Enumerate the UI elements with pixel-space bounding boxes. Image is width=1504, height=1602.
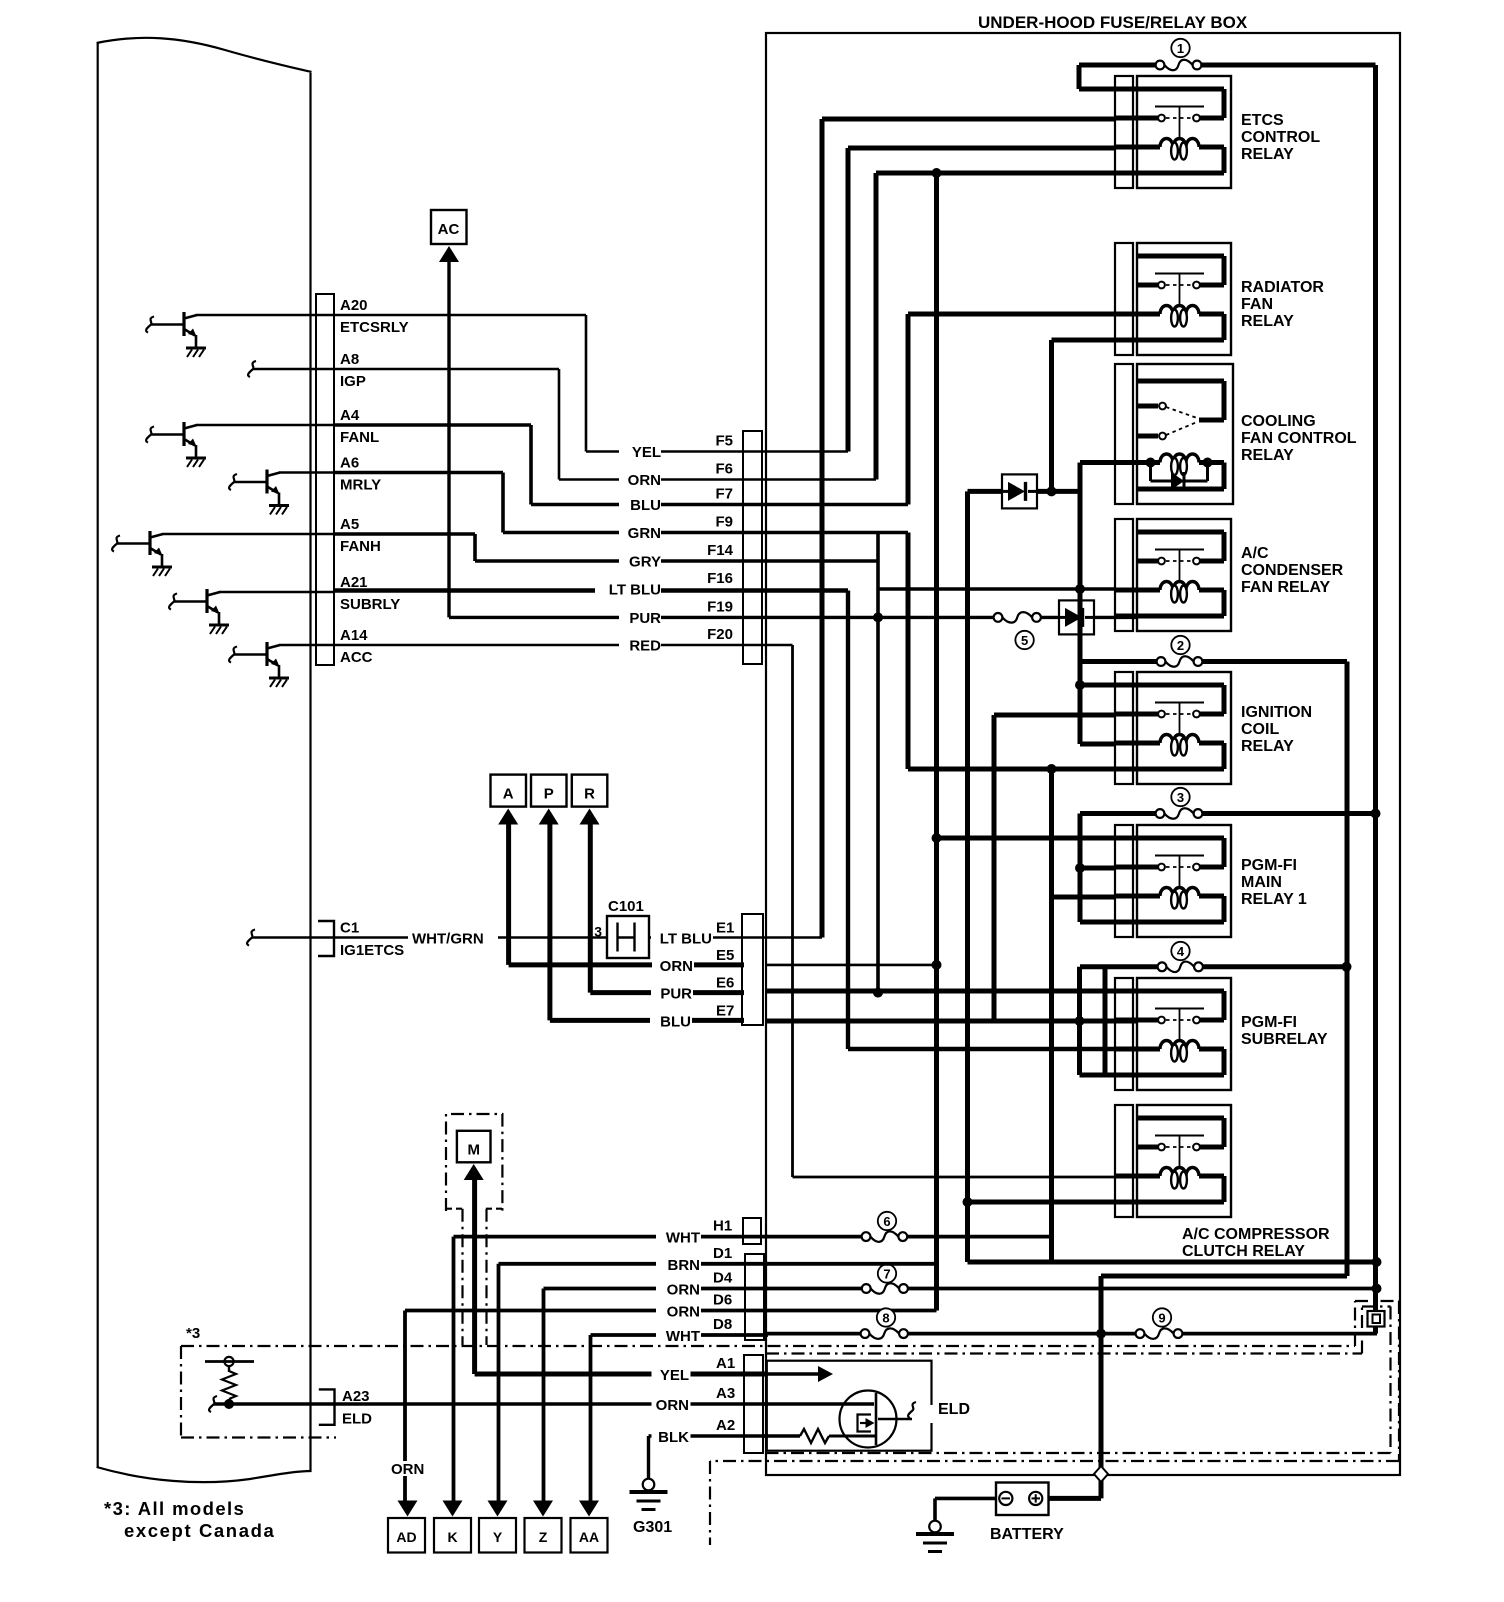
svg-text:RELAY: RELAY bbox=[1241, 447, 1294, 464]
svg-text:7: 7 bbox=[883, 1266, 890, 1281]
svg-text:MRLY: MRLY bbox=[340, 477, 381, 494]
box Z bbox=[525, 1518, 562, 1553]
svg-text:F9: F9 bbox=[715, 514, 733, 531]
ELD box bbox=[767, 1361, 932, 1451]
svg-text:AD: AD bbox=[396, 1529, 416, 1545]
junction dot clutch bottom / v8 bbox=[963, 1197, 973, 1207]
ECM band wavy bottom edge bbox=[97, 1467, 312, 1482]
wire ignition coil from v9 corner bbox=[1080, 742, 1115, 747]
svg-text:3: 3 bbox=[594, 924, 602, 940]
svg-text:F6: F6 bbox=[715, 461, 733, 478]
wire A5 pin row bbox=[162, 533, 334, 536]
svg-text:IGP: IGP bbox=[340, 373, 366, 390]
svg-text:MAIN: MAIN bbox=[1241, 874, 1282, 891]
wire v10: F20/RED down to clutch coil bbox=[791, 645, 794, 1177]
box AA bbox=[571, 1518, 608, 1553]
diamond pass-through on box bottom bbox=[1094, 1466, 1108, 1482]
svg-text:A23: A23 bbox=[342, 1388, 370, 1405]
svg-text:A4: A4 bbox=[340, 407, 360, 424]
svg-text:BLU: BLU bbox=[660, 1013, 691, 1030]
ECM connector bracket A-pins bbox=[316, 294, 334, 665]
fuse 1 bbox=[1171, 39, 1189, 57]
wire D8 (WHT) row to AA box dropper bbox=[591, 1333, 769, 1337]
svg-text:D4: D4 bbox=[713, 1270, 733, 1287]
wire main relay coil row from v6c bbox=[1052, 895, 1116, 900]
svg-text:*3: *3 bbox=[186, 1325, 200, 1342]
junction dot ignition bottom / v6c bbox=[1047, 764, 1057, 774]
label pads bbox=[619, 444, 661, 460]
svg-text:PGM-FI: PGM-FI bbox=[1241, 1014, 1297, 1031]
svg-text:D1: D1 bbox=[713, 1245, 732, 1262]
ground G301 bbox=[643, 1479, 655, 1491]
svg-text:YEL: YEL bbox=[660, 1367, 689, 1384]
*3 resistor (vertical) bbox=[228, 1362, 230, 1372]
diode D2 (fuse5 to condenser relay) bbox=[1094, 616, 1137, 619]
wire A6 to F9 (GRN) jog bbox=[334, 471, 503, 475]
svg-text:Z: Z bbox=[539, 1529, 548, 1545]
svg-text:SUBRELAY: SUBRELAY bbox=[1241, 1031, 1328, 1048]
svg-text:CONDENSER: CONDENSER bbox=[1241, 562, 1344, 579]
wire D4 (ORN) row to Z box dropper bbox=[544, 1287, 769, 1291]
connector C101 (joint) bbox=[607, 916, 649, 958]
relay COOLING FAN CONTROL RELAY bbox=[1115, 364, 1133, 504]
svg-text:E7: E7 bbox=[716, 1002, 734, 1019]
svg-text:F20: F20 bbox=[707, 626, 733, 643]
svg-text:A5: A5 bbox=[340, 516, 359, 533]
wire A2 (BLK) row bbox=[649, 1434, 767, 1437]
svg-text:E6: E6 bbox=[716, 975, 734, 992]
relay A/C COMPRESSOR CLUTCH RELAY bbox=[1115, 1105, 1133, 1217]
svg-text:BATTERY: BATTERY bbox=[990, 1526, 1064, 1543]
arrow into AC box bbox=[439, 246, 459, 262]
svg-text:RELAY 1: RELAY 1 bbox=[1241, 891, 1307, 908]
svg-text:RELAY: RELAY bbox=[1241, 738, 1294, 755]
fuse 3 bbox=[1171, 788, 1189, 806]
wire BLK down to G301 bbox=[647, 1436, 650, 1479]
junction dot E5 row / v4 bbox=[932, 960, 942, 970]
svg-text:FANH: FANH bbox=[340, 538, 381, 555]
wire P box to E7 (BLU) bbox=[547, 823, 552, 1020]
svg-text:FAN: FAN bbox=[1241, 296, 1273, 313]
wire battery riser bbox=[1099, 1276, 1104, 1498]
wire A20 to F5 (YEL) jog bbox=[334, 314, 586, 317]
svg-text:ELD: ELD bbox=[342, 1411, 372, 1428]
wire A box to E5 (ORN) bbox=[506, 823, 511, 965]
wire fuse1 to ETCS top bbox=[1077, 65, 1082, 89]
wire v_g: GRN/GRY net down to E6 bbox=[876, 533, 880, 993]
svg-text:PGM-FI: PGM-FI bbox=[1241, 857, 1297, 874]
wire M to A1 (YEL) bbox=[472, 1176, 477, 1374]
fuse 7 bbox=[878, 1264, 896, 1282]
wire E6 row to subrelay top bbox=[766, 989, 1137, 994]
svg-text:H1: H1 bbox=[713, 1218, 732, 1235]
wire v1: E1 net up to ETCS contact bbox=[820, 119, 825, 938]
ECM band wavy top edge bbox=[97, 38, 312, 72]
junction dot E7 / v9c bbox=[1075, 1016, 1085, 1026]
wire v12: ignition contact feed bbox=[994, 713, 1115, 718]
svg-text:D6: D6 bbox=[713, 1292, 732, 1309]
svg-text:C101: C101 bbox=[608, 898, 644, 915]
wire v13: fuse4 row down to subrelay bottom bbox=[1103, 967, 1108, 1075]
svg-text:ORN: ORN bbox=[660, 958, 693, 975]
M device dash-dot enclosure bbox=[446, 1114, 502, 1211]
svg-text:6: 6 bbox=[883, 1214, 890, 1229]
ECM band left edge bbox=[97, 43, 99, 1468]
connector bracket F (under-hood box) bbox=[743, 431, 762, 664]
wire A6 pin row bbox=[279, 471, 334, 474]
svg-text:FAN CONTROL: FAN CONTROL bbox=[1241, 430, 1357, 447]
wire A5 to F14 (GRY) jog bbox=[334, 532, 475, 536]
svg-text:AC: AC bbox=[438, 221, 460, 238]
fuse 8 bbox=[877, 1308, 895, 1326]
connector bracket H1 bbox=[743, 1218, 761, 1244]
ground (battery) bbox=[929, 1521, 941, 1533]
svg-text:A14: A14 bbox=[340, 627, 368, 644]
dash-dot rail inner bbox=[766, 1352, 1362, 1354]
fuse 4 bbox=[1171, 942, 1189, 960]
fuse 6 bbox=[878, 1212, 896, 1230]
svg-text:F14: F14 bbox=[707, 542, 734, 559]
relay PGM-FI SUBRELAY bbox=[1115, 978, 1133, 1090]
wire v5b: GRN row down to ignition bottom bbox=[906, 533, 911, 770]
svg-text:G301: G301 bbox=[633, 1519, 672, 1536]
connector bracket E bbox=[742, 914, 763, 1025]
box R bbox=[572, 775, 608, 807]
svg-text:E1: E1 bbox=[716, 920, 734, 937]
wire fuse2 corner into v9, dot to ignition top bbox=[1078, 662, 1083, 745]
junction dot feedB / fuse4 row bbox=[1342, 962, 1352, 972]
svg-text:WHT: WHT bbox=[666, 1328, 700, 1345]
fuse 5 bbox=[1015, 631, 1033, 649]
svg-text:A1: A1 bbox=[716, 1355, 735, 1372]
relay RADIATOR FAN RELAY bbox=[1115, 243, 1133, 355]
wire D6 (ORN) row to AD box dropper bbox=[405, 1309, 937, 1313]
transistor Q3 (A6 MRLY driver) bbox=[265, 470, 268, 494]
wire battery negative to ground bbox=[935, 1497, 996, 1501]
junction dot ETCS bottom / ORN net bbox=[932, 168, 942, 178]
wire D1 row right to v4 bbox=[766, 1262, 937, 1266]
svg-text:RELAY: RELAY bbox=[1241, 146, 1294, 163]
svg-text:R: R bbox=[584, 786, 595, 803]
box P bbox=[531, 775, 567, 807]
wire fuse3 down v9b to main relay bbox=[1078, 814, 1083, 923]
svg-text:A/C: A/C bbox=[1241, 545, 1269, 562]
junction dot v9b main contact bbox=[1075, 863, 1085, 873]
terminal box on feedA bbox=[1368, 1311, 1385, 1327]
svg-text:PUR: PUR bbox=[629, 610, 661, 627]
junction dot v_g E6 row bbox=[873, 988, 883, 998]
relay IGNITION COIL RELAY bbox=[1115, 672, 1133, 784]
ELD gate symbol bbox=[858, 1415, 872, 1432]
wire AC box to F19 (PUR) bbox=[447, 258, 450, 617]
wire radiator bottom to v6 bbox=[1052, 338, 1116, 343]
diode box fuse5 bbox=[1059, 600, 1094, 634]
junction dot v9/GRN condenser row bbox=[1075, 584, 1085, 594]
relay A/C CONDENSER FAN RELAY bbox=[1115, 519, 1133, 631]
svg-text:WHT/GRN: WHT/GRN bbox=[412, 931, 484, 948]
transistor Q4 (A5 FANH driver) bbox=[148, 531, 151, 555]
M box bbox=[457, 1131, 491, 1163]
svg-text:ETCS: ETCS bbox=[1241, 112, 1284, 129]
svg-text:BLU: BLU bbox=[630, 497, 661, 514]
svg-text:ORN: ORN bbox=[656, 1397, 689, 1414]
junction dot v6 / diode row bbox=[1047, 486, 1057, 496]
wire R box to E6 (PUR) bbox=[588, 823, 593, 993]
svg-text:5: 5 bbox=[1021, 633, 1028, 648]
wire main relay top row from v4 bbox=[932, 833, 942, 843]
svg-text:A6: A6 bbox=[340, 455, 359, 472]
svg-text:K: K bbox=[447, 1529, 457, 1545]
arrow into M box bbox=[464, 1164, 484, 1180]
wire A14 pin row bbox=[279, 644, 334, 647]
svg-text:ORN: ORN bbox=[628, 472, 661, 489]
svg-text:UNDER-HOOD FUSE/RELAY BOX: UNDER-HOOD FUSE/RELAY BOX bbox=[978, 13, 1248, 32]
transistor Q6 (A14 ACC driver) bbox=[265, 642, 268, 666]
wire A8 row with cut squiggle bbox=[248, 361, 256, 377]
fuse 2 bbox=[1171, 636, 1189, 654]
wire A3 into ELD transistor bbox=[763, 1402, 874, 1405]
svg-text:SUBRLY: SUBRLY bbox=[340, 596, 400, 613]
svg-text:FANL: FANL bbox=[340, 429, 379, 446]
junction dot feedA / fuse3 bbox=[1371, 809, 1381, 819]
connector bracket D bbox=[745, 1254, 764, 1340]
wire A23/ELD (ORN) row to A3 bbox=[214, 1402, 766, 1405]
box A bbox=[491, 775, 527, 807]
svg-text:COOLING: COOLING bbox=[1241, 413, 1316, 430]
connector bracket A23 bbox=[319, 1389, 335, 1424]
svg-text:A: A bbox=[503, 786, 514, 803]
svg-text:BRN: BRN bbox=[668, 1257, 701, 1274]
transistor Q2 (A4 FANL driver) bbox=[182, 422, 185, 446]
junction dot feedA / fuse6-D1 net bbox=[1372, 1257, 1382, 1267]
svg-text:GRN: GRN bbox=[628, 525, 661, 542]
transistor Q1 (A20 ETCSRLY driver) bbox=[182, 312, 185, 336]
svg-text:1: 1 bbox=[1177, 41, 1184, 56]
relay ETCS CONTROL RELAY bbox=[1115, 76, 1133, 188]
svg-text:A3: A3 bbox=[716, 1385, 735, 1402]
wire diode D1row: v8 corner through diode to v9 bbox=[965, 491, 970, 1262]
svg-text:ELD: ELD bbox=[938, 1401, 970, 1418]
svg-text:ETCSRLY: ETCSRLY bbox=[340, 319, 409, 336]
junction dot v_g/PUR row bbox=[873, 612, 883, 622]
dash-dot rail upper bbox=[181, 1345, 1355, 1347]
*3 dash-dot box bbox=[180, 1346, 182, 1438]
wire v6c: ignition bottom down to fuse6 out bbox=[1049, 769, 1054, 1262]
svg-text:RELAY: RELAY bbox=[1241, 313, 1294, 330]
svg-text:FAN RELAY: FAN RELAY bbox=[1241, 579, 1331, 596]
svg-text:A20: A20 bbox=[340, 297, 368, 314]
junction dot *3 resistor bbox=[224, 1399, 234, 1409]
svg-text:A/C COMPRESSOR: A/C COMPRESSOR bbox=[1182, 1226, 1330, 1243]
svg-text:F16: F16 bbox=[707, 570, 733, 587]
svg-text:9: 9 bbox=[1158, 1310, 1165, 1325]
wire A1 arrow inside ELD bbox=[763, 1372, 818, 1375]
under-hood fuse/relay box outline bbox=[766, 33, 1400, 1475]
relay PGM-FI MAIN RELAY 1 bbox=[1115, 825, 1133, 937]
svg-text:RED: RED bbox=[629, 638, 661, 655]
ELD transistor circle bbox=[840, 1391, 897, 1448]
svg-text:COIL: COIL bbox=[1241, 721, 1279, 738]
wire C1 IG1ETCS (WHT/GRN) to C101 to E1 bbox=[247, 930, 255, 946]
svg-text:IG1ETCS: IG1ETCS bbox=[340, 942, 404, 959]
svg-text:ACC: ACC bbox=[340, 649, 373, 666]
svg-text:*3: All models: *3: All models bbox=[104, 1498, 245, 1519]
svg-text:4: 4 bbox=[1177, 944, 1185, 959]
wire v9 upper: cooling coil feed bbox=[1080, 460, 1115, 465]
svg-text:WHT: WHT bbox=[666, 1230, 700, 1247]
svg-text:YEL: YEL bbox=[632, 444, 661, 461]
wire v5: F7/BLU up to radiator coil bbox=[906, 314, 911, 505]
wire battery positive riser bbox=[1049, 1496, 1102, 1501]
connector bracket A (ELD pins) bbox=[744, 1355, 763, 1453]
wire v9c: fuse4 feed down to subrelay bottom bbox=[1077, 967, 1082, 1075]
M shield dash-dot legs bbox=[461, 1209, 463, 1345]
svg-text:RADIATOR: RADIATOR bbox=[1241, 279, 1324, 296]
svg-text:C1: C1 bbox=[340, 920, 359, 937]
svg-text:3: 3 bbox=[1177, 790, 1184, 805]
svg-text:LT BLU: LT BLU bbox=[660, 931, 712, 948]
wire D1 (BRN) row to Y box dropper bbox=[499, 1262, 769, 1266]
svg-text:P: P bbox=[544, 786, 554, 803]
wire main relay bottom from v9b corner bbox=[1080, 920, 1115, 925]
svg-text:A2: A2 bbox=[716, 1417, 735, 1434]
svg-text:M: M bbox=[467, 1142, 480, 1159]
svg-text:ORN: ORN bbox=[391, 1461, 424, 1478]
diode box upper bbox=[1002, 474, 1037, 508]
svg-text:2: 2 bbox=[1177, 638, 1184, 653]
ECM connector bracket C1 bbox=[318, 921, 334, 956]
wire A20 pin row bbox=[196, 314, 334, 317]
svg-text:CLUTCH RELAY: CLUTCH RELAY bbox=[1182, 1243, 1305, 1260]
wire A21 pin row bbox=[219, 591, 334, 594]
wire condenser coil row from v_g bbox=[878, 587, 1115, 591]
wire E7 row to subrelay contact bbox=[766, 1019, 1137, 1024]
svg-text:CONTROL: CONTROL bbox=[1241, 129, 1320, 146]
fuse 9 bbox=[1153, 1308, 1171, 1326]
wire A4 pin row bbox=[196, 424, 334, 427]
wire v2pp: LT BLU down to subrelay coil bbox=[846, 591, 850, 1050]
svg-text:BLK: BLK bbox=[658, 1429, 689, 1446]
transistor Q5 (A21 SUBRLY driver) bbox=[205, 589, 208, 613]
wire A8 to F6 (ORN) jog bbox=[334, 368, 559, 371]
box AD bbox=[388, 1518, 425, 1553]
wire feedA: fuse1 down right side bbox=[1373, 65, 1378, 1311]
svg-text:D8: D8 bbox=[713, 1316, 732, 1333]
svg-text:AA: AA bbox=[579, 1529, 599, 1545]
junction dot battery riser / fuse8-9 row bbox=[1096, 1329, 1106, 1339]
wire v3: F6/ORN up to ETCS bottom bbox=[874, 173, 879, 480]
wire feedB: fuse2 down to battery riser bbox=[1345, 662, 1350, 1277]
box Y bbox=[479, 1518, 516, 1553]
svg-text:ORN: ORN bbox=[667, 1304, 700, 1321]
junction dot feedA / fuse7 row bbox=[1372, 1284, 1382, 1294]
svg-text:IGNITION: IGNITION bbox=[1241, 704, 1312, 721]
wire A4 to F7 (BLU) jog bbox=[334, 423, 531, 427]
wire v2: F5/YEL up to ETCS coil bbox=[846, 148, 851, 452]
box K bbox=[434, 1518, 471, 1553]
svg-text:Y: Y bbox=[493, 1529, 503, 1545]
wire v4: ORN net vertical (ETCS bottom to D6) bbox=[934, 173, 939, 1311]
ECM band right edge bbox=[309, 73, 311, 1472]
wire A2 resistor inside ELD bbox=[763, 1434, 800, 1437]
svg-text:F19: F19 bbox=[707, 598, 733, 615]
wire A14 to F20 (RED) bbox=[334, 644, 793, 647]
svg-text:E5: E5 bbox=[716, 947, 734, 964]
battery bbox=[996, 1483, 1049, 1516]
svg-text:ORN: ORN bbox=[667, 1282, 700, 1299]
ELD output squiggle bbox=[878, 1418, 912, 1420]
wire fuse6 output jog down to feedA row bbox=[1049, 1237, 1054, 1262]
svg-text:8: 8 bbox=[882, 1310, 889, 1325]
svg-text:F7: F7 bbox=[715, 486, 733, 503]
svg-text:LT BLU: LT BLU bbox=[609, 582, 661, 599]
svg-text:PUR: PUR bbox=[660, 986, 692, 1003]
wire A21 to F16 (LT BLU) bbox=[334, 588, 848, 592]
AC box connector symbol bbox=[431, 210, 467, 244]
svg-text:F5: F5 bbox=[715, 433, 733, 450]
svg-text:except Canada: except Canada bbox=[124, 1520, 275, 1541]
wire H1 (WHT) row to K box dropper bbox=[454, 1235, 769, 1239]
svg-text:GRY: GRY bbox=[629, 554, 661, 571]
svg-text:A8: A8 bbox=[340, 351, 359, 368]
